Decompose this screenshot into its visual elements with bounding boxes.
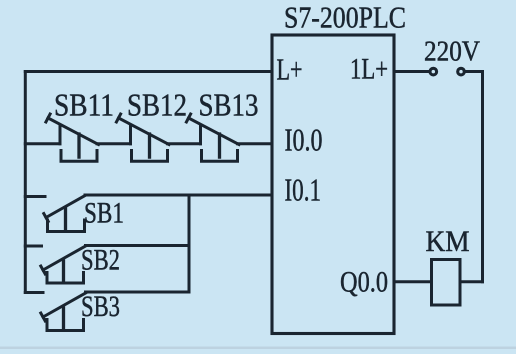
wire SB2 to bus <box>86 244 190 247</box>
svg-text:KM: KM <box>426 225 470 258</box>
wire SB3 to bus <box>86 291 190 294</box>
pushbutton SB13 NC contact <box>186 114 239 161</box>
wire left vertical bus <box>24 72 27 293</box>
svg-text:L+: L+ <box>277 52 303 87</box>
svg-text:SB11: SB11 <box>54 87 114 123</box>
svg-text:220V: 220V <box>424 37 480 68</box>
svg-text:1L+: 1L+ <box>350 53 388 86</box>
svg-text:SB3: SB3 <box>81 290 120 323</box>
svg-text:I0.1: I0.1 <box>285 172 322 208</box>
wire right collector bus <box>188 195 191 292</box>
svg-text:SB13: SB13 <box>199 87 259 123</box>
svg-text:Q0.0: Q0.0 <box>340 266 388 299</box>
wire SB13 to PLC I0.0 <box>238 142 273 145</box>
wire SB1 to PLC I0.1 <box>85 194 272 197</box>
wire PLC Q0.0 to KM coil <box>394 280 432 283</box>
wire KM coil to right vertical <box>460 280 483 283</box>
svg-text:S7-200PLC: S7-200PLC <box>284 0 406 35</box>
pushbutton SB2 NO contact <box>25 246 85 283</box>
contactor coil KM <box>432 260 461 306</box>
terminal circle 220V right <box>458 68 465 75</box>
pushbutton SB11 NC contact <box>46 114 99 161</box>
wire PLC 1L+ to 220V terminal <box>394 70 430 73</box>
svg-text:SB1: SB1 <box>84 197 124 230</box>
wire 220V terminal to right drop <box>464 72 482 282</box>
wire L+ supply: left bus top to PLC L+ <box>25 70 272 73</box>
pushbutton SB3 NO contact <box>25 293 85 331</box>
svg-text:I0.0: I0.0 <box>285 122 323 158</box>
svg-text:SB2: SB2 <box>81 244 120 277</box>
pushbutton SB1 NO contact <box>25 196 85 232</box>
wire SB11 to SB12 <box>97 142 131 145</box>
wire bus to SB11 <box>25 142 60 145</box>
pushbutton SB12 NC contact <box>116 114 169 161</box>
terminal circle 220V left <box>430 68 437 75</box>
svg-text:SB12: SB12 <box>127 87 187 123</box>
PLC box S7-200 <box>272 35 394 334</box>
wire SB12 to SB13 <box>168 142 201 145</box>
